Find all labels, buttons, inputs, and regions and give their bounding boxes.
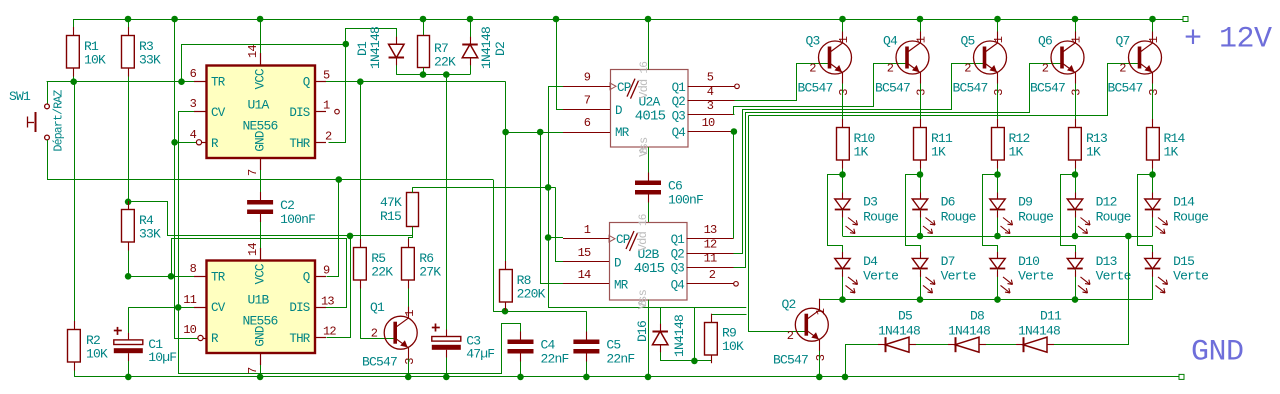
wire CV net to C4 top (179, 308, 521, 374)
svg-text:4015: 4015 (635, 109, 666, 125)
LED D10 green (990, 258, 1006, 269)
resistor R12 (992, 128, 1005, 161)
LED D7 green (912, 258, 928, 269)
svg-text:4: 4 (190, 128, 197, 142)
resistor R3 (122, 36, 135, 69)
LED D12 red (1067, 199, 1083, 210)
svg-text:D6: D6 (941, 195, 955, 210)
svg-text:1: 1 (915, 36, 929, 43)
svg-text:2: 2 (371, 327, 378, 341)
wire U2B Q1 pin13 to Q5 base (734, 64, 985, 254)
svg-text:Q3: Q3 (672, 109, 686, 123)
svg-text:13: 13 (321, 295, 334, 309)
svg-text:2: 2 (787, 329, 794, 343)
op-amp U1A NE556 timer body (207, 66, 316, 159)
svg-text:C2: C2 (280, 198, 294, 213)
svg-text:Verte: Verte (1018, 269, 1053, 284)
wire Q6 collector to +12V (1072, 16, 1079, 23)
svg-text:2: 2 (1042, 62, 1049, 76)
svg-text:D7: D7 (941, 254, 955, 269)
wire U2A D pin7 to +12V (553, 16, 560, 23)
svg-text:8: 8 (190, 262, 197, 276)
wire D16 anode to R9 bottom (660, 360, 711, 362)
svg-text:7: 7 (246, 169, 260, 176)
wire R5 column (360, 82, 362, 248)
resistor R1 (73, 19, 75, 36)
wire Q4 emitter to R11 (920, 73, 922, 128)
svg-text:Q1: Q1 (370, 300, 385, 315)
svg-text:2: 2 (325, 130, 332, 144)
wire verte jog column 4 (906, 175, 921, 259)
svg-text:DIS: DIS (289, 106, 309, 120)
resistor R9 (705, 323, 718, 356)
svg-text:1: 1 (1147, 36, 1161, 43)
wire U2B Q2 pin12 to Q6 base (734, 64, 1063, 268)
wire CP9 U2A clock (549, 87, 564, 308)
svg-text:4: 4 (707, 85, 714, 99)
svg-text:10K: 10K (86, 347, 108, 362)
svg-text:BC547: BC547 (362, 355, 397, 370)
wire +12V to R reset pins (171, 16, 178, 23)
wire U1A Q5 output net (326, 81, 506, 83)
svg-text:1: 1 (403, 310, 417, 317)
svg-text:Q7: Q7 (1116, 34, 1130, 49)
svg-text:Q5: Q5 (961, 34, 975, 49)
wire verte LED 2 to verte rail (920, 270, 922, 300)
diode D1 1N4148 (389, 44, 405, 58)
svg-text:MR: MR (614, 278, 629, 292)
svg-text:Rouge: Rouge (1173, 209, 1208, 224)
svg-text:7: 7 (584, 94, 591, 108)
diode D16 1N4148 (660, 307, 662, 331)
svg-text:1K: 1K (1086, 145, 1101, 160)
svg-text:2: 2 (1119, 62, 1126, 76)
svg-text:33K: 33K (139, 53, 161, 68)
wire D1 R7 D2 bottom rail (396, 74, 470, 76)
diode D8 1N4148 (955, 337, 957, 352)
wire U1B GND pin to rail (260, 365, 262, 377)
svg-text:22K: 22K (434, 55, 456, 70)
svg-text:1N4148: 1N4148 (878, 324, 920, 339)
svg-text:D8: D8 (970, 309, 984, 324)
svg-text:MR: MR (615, 126, 630, 140)
wire U2A Vss to C6 (648, 147, 650, 180)
resistor R1 (67, 36, 80, 69)
svg-text:R15: R15 (380, 209, 401, 224)
svg-text:3: 3 (837, 89, 851, 96)
svg-text:D2: D2 (493, 42, 508, 56)
wire THR2 U1A route (329, 45, 346, 143)
wire U2B Q3 pin11 to Q2 base (749, 116, 807, 332)
wire +12V top rail (73, 19, 1183, 21)
capacitor C5 (573, 340, 599, 345)
svg-text:Q2: Q2 (782, 297, 796, 312)
svg-text:2: 2 (887, 62, 894, 76)
svg-text:D10: D10 (1018, 254, 1039, 269)
svg-text:Q1: Q1 (671, 233, 685, 247)
svg-text:Verte: Verte (1173, 269, 1208, 284)
svg-text:Q: Q (303, 75, 310, 89)
wire U1A VCC to rail (257, 16, 264, 23)
svg-text:27K: 27K (419, 265, 441, 280)
wire U1A DIS pin1 unconnected (335, 109, 340, 114)
wire U2B Q4 pin2 unconnected (734, 282, 739, 287)
svg-text:D13: D13 (1096, 254, 1117, 269)
wire Q7 emitter to R14 (1152, 73, 1154, 128)
wire verte LED 1 to verte rail (842, 270, 844, 300)
svg-text:1K: 1K (931, 145, 946, 160)
svg-text:3: 3 (707, 99, 714, 113)
wire diode chain to GND (845, 345, 847, 377)
svg-text:1: 1 (323, 99, 330, 113)
svg-text:47K: 47K (380, 195, 402, 210)
diode D5 1N4148 (885, 337, 887, 352)
svg-text:14: 14 (246, 243, 260, 256)
svg-text:Vdd: Vdd (637, 79, 651, 99)
svg-text:47µF: 47µF (466, 347, 494, 362)
svg-text:4015: 4015 (634, 261, 665, 277)
resistor R2 (68, 330, 81, 363)
LED D13 green (1067, 258, 1083, 269)
svg-text:1N4148: 1N4148 (672, 315, 687, 357)
svg-text:Verte: Verte (941, 269, 976, 284)
svg-text:16: 16 (638, 214, 650, 226)
svg-text:1N4148: 1N4148 (479, 27, 494, 69)
svg-text:1: 1 (837, 36, 851, 43)
svg-text:BC547: BC547 (953, 81, 988, 96)
wire U2A Q4 pin10 cascade down to U2B pin13 (731, 128, 738, 135)
svg-text:TR: TR (211, 75, 226, 89)
svg-text:3: 3 (992, 89, 1006, 96)
wire Q2 collector to verte rail (820, 300, 821, 311)
wire D1 top route (346, 29, 397, 45)
svg-text:D: D (614, 256, 621, 270)
svg-text:Q3: Q3 (671, 262, 685, 276)
svg-text:Q4: Q4 (672, 126, 686, 140)
wire verte jog column 6 (1061, 175, 1076, 259)
svg-text:3: 3 (1147, 89, 1161, 96)
wire rouge LED 5 to rouge rail (1152, 211, 1154, 237)
svg-text:14: 14 (578, 268, 591, 282)
wire D11 to rouge rail (1048, 237, 1129, 345)
svg-text:GND: GND (254, 326, 268, 346)
svg-text:+ 12V: + 12V (1184, 23, 1272, 57)
LED D4 green (835, 258, 851, 269)
svg-text:BC547: BC547 (875, 81, 910, 96)
svg-text:Q2: Q2 (671, 248, 685, 262)
resistor R4 (122, 210, 135, 243)
op-amp U1B NE556 timer body (207, 261, 316, 354)
svg-text:Rouge: Rouge (1018, 209, 1053, 224)
svg-text:11: 11 (183, 293, 196, 307)
svg-text:Rouge: Rouge (863, 209, 898, 224)
svg-text:BC547: BC547 (1030, 81, 1065, 96)
svg-text:6: 6 (190, 67, 197, 81)
LED D3 red (835, 199, 851, 210)
svg-text:TR: TR (211, 270, 226, 284)
wire down to C3 top (446, 75, 448, 337)
svg-text:NE556: NE556 (242, 119, 277, 134)
wire Q5 collector to +12V (994, 16, 1001, 23)
svg-text:Q4: Q4 (671, 278, 685, 292)
svg-text:Q2: Q2 (672, 95, 686, 109)
wire U1B THR12 route (327, 236, 351, 338)
capacitor C3 (432, 337, 461, 342)
wire rouge LED 2 to rouge rail (920, 211, 922, 237)
node TR1 junction R1 (70, 78, 77, 85)
svg-text:3: 3 (814, 354, 828, 361)
svg-text:D3: D3 (863, 195, 877, 210)
svg-text:Rouge: Rouge (941, 209, 976, 224)
svg-text:D12: D12 (1096, 195, 1117, 210)
wire clock to R15/D15 (412, 187, 555, 189)
svg-text:CV: CV (211, 301, 226, 315)
svg-text:D15: D15 (1173, 254, 1194, 269)
wire Q3 emitter to R10 (842, 73, 844, 128)
wire MR net vertical (505, 82, 507, 270)
pin stubs U1B (194, 276, 206, 278)
resistor R14 (1147, 128, 1160, 161)
svg-text:Départ/RAZ: Départ/RAZ (53, 90, 66, 152)
svg-text:22nF: 22nF (541, 352, 569, 367)
shift register U2B 4015 body (610, 223, 688, 301)
svg-text:220K: 220K (517, 287, 546, 302)
wire rouge LED 3 to rouge rail (997, 211, 999, 237)
svg-text:8: 8 (639, 148, 651, 154)
svg-text:SW1: SW1 (9, 89, 31, 104)
wire rouge LED 4 to rouge rail (1075, 211, 1077, 237)
svg-text:1K: 1K (1009, 145, 1024, 160)
svg-text:C6: C6 (668, 179, 682, 194)
resistor R13 (1069, 128, 1082, 161)
svg-text:10: 10 (702, 116, 715, 130)
svg-text:D11: D11 (1040, 309, 1062, 324)
capacitor C2 (247, 200, 273, 205)
LED D6 red (912, 199, 928, 210)
wire rouge LED 1 to rouge rail (842, 211, 844, 237)
diode D2 1N4148 (467, 16, 474, 23)
wire Q3 collector to +12V (839, 16, 846, 23)
svg-text:15: 15 (578, 246, 591, 260)
svg-text:10: 10 (183, 323, 196, 337)
svg-text:3: 3 (403, 358, 417, 365)
wire clock to D16 (548, 307, 746, 309)
wire TR net horizontal (47, 81, 194, 83)
svg-text:GND: GND (1191, 336, 1244, 370)
wire U1A CV pin3 down to U1B CV net (179, 112, 195, 308)
svg-text:VCC: VCC (254, 69, 268, 89)
wire MR6 U2A (506, 132, 563, 134)
svg-text:D5: D5 (898, 309, 912, 324)
resistor R5 (354, 248, 367, 281)
wire Q4 collector to +12V (917, 16, 924, 23)
svg-text:U1B: U1B (247, 293, 269, 308)
wire verte LED 5 to verte rail (1152, 270, 1154, 300)
resistor R8 (500, 270, 513, 303)
svg-text:Q4: Q4 (883, 34, 898, 49)
capacitor C6 (635, 181, 661, 186)
svg-text:10K: 10K (84, 53, 106, 68)
svg-text:10µF: 10µF (148, 350, 176, 365)
wire R9 top to Q2 base node (712, 315, 747, 323)
svg-text:DIS: DIS (289, 301, 309, 315)
svg-text:7: 7 (246, 367, 260, 374)
wire Q6 emitter to R13 (1075, 73, 1077, 128)
svg-text:GND: GND (254, 131, 268, 151)
wire verte LED 3 to verte rail (997, 270, 999, 300)
resistor R4 (125, 199, 132, 206)
shift register U2A 4015 body (611, 70, 689, 148)
svg-text:C4: C4 (541, 338, 556, 353)
wire verte jog column 3 (828, 175, 843, 259)
svg-text:THR: THR (289, 137, 310, 151)
svg-text:1N4148: 1N4148 (948, 324, 990, 339)
svg-text:Rouge: Rouge (1096, 209, 1131, 224)
svg-text:5: 5 (323, 69, 330, 83)
resistor R10 (837, 128, 850, 161)
svg-text:16: 16 (639, 62, 651, 74)
svg-text:3: 3 (190, 97, 197, 111)
svg-text:5: 5 (707, 71, 714, 85)
svg-text:Verte: Verte (1096, 269, 1131, 284)
capacitor C4 (508, 340, 534, 345)
svg-text:Vdd: Vdd (636, 231, 650, 251)
wire U2B Q3 pin11 to Q7 base (749, 64, 1140, 116)
svg-text:3: 3 (1070, 89, 1084, 96)
svg-text:D16: D16 (635, 321, 650, 342)
svg-text:THR: THR (289, 332, 310, 346)
wire U2A Vdd to rail (645, 16, 652, 23)
svg-text:1: 1 (584, 223, 591, 237)
svg-text:1: 1 (814, 308, 828, 315)
resistor R11 (914, 128, 927, 161)
transistor Q1 BC547 (360, 338, 395, 340)
pin stubs U2B left (563, 238, 609, 240)
pin stubs U2A right (688, 86, 735, 88)
svg-text:12: 12 (323, 325, 336, 339)
svg-text:Q6: Q6 (1038, 34, 1052, 49)
svg-text:CV: CV (211, 106, 226, 120)
wire U1A R pin4 to +12V line (175, 142, 197, 144)
svg-text:6: 6 (584, 116, 591, 130)
node R8 bottom junction (502, 308, 509, 315)
resistor R2 (74, 82, 76, 330)
svg-text:D9: D9 (1018, 195, 1032, 210)
wire GND bottom rail (74, 376, 1179, 378)
svg-text:Q: Q (303, 270, 310, 284)
svg-text:1: 1 (992, 36, 1006, 43)
resistor R3 (125, 16, 132, 23)
LED D9 red (990, 199, 1006, 210)
svg-text:1K: 1K (854, 145, 869, 160)
wire verte jog column 5 (983, 175, 998, 259)
wire U2A Q1 pin5 unconnected (735, 84, 740, 89)
capacitor C1 (114, 340, 143, 345)
svg-text:BC547: BC547 (1108, 81, 1143, 96)
wire CV11 net with C1 (175, 304, 182, 311)
svg-text:C5: C5 (606, 338, 620, 353)
svg-text:1N4148: 1N4148 (368, 27, 383, 69)
svg-text:2: 2 (964, 62, 971, 76)
pin stubs U1A (194, 81, 206, 83)
wire U1B TR pin8 net (128, 276, 194, 278)
svg-text:D4: D4 (863, 254, 878, 269)
svg-text:U1A: U1A (247, 98, 269, 113)
pin stubs U2A left (563, 86, 610, 88)
wire verte jog column 7 (1138, 175, 1153, 259)
switch SW1 Depart/RAZ (47, 82, 49, 104)
wire Q7 collector to +12V (1149, 16, 1156, 23)
svg-text:13: 13 (704, 223, 717, 237)
wire Q5 emitter to R12 (997, 73, 999, 128)
svg-text:14: 14 (246, 45, 260, 58)
wire U1B Q9 output to clock node (327, 180, 339, 277)
svg-text:12: 12 (704, 238, 717, 252)
LED D15 green (1145, 258, 1161, 269)
pin stubs U2B right (687, 238, 734, 240)
wire U1A GND to C2 (260, 170, 262, 200)
svg-text:100nF: 100nF (668, 193, 703, 208)
resistor R6 (402, 248, 415, 281)
wire MR14 U2B (541, 133, 564, 284)
svg-text:100nF: 100nF (280, 212, 315, 227)
wire SW1 to clock caps node (47, 179, 493, 181)
wire U2B Vss to GND (648, 300, 650, 377)
node R4 top route to THR net (129, 202, 351, 236)
wire D1 branch from TR net (178, 78, 185, 85)
diode D11 1N4148 (1023, 337, 1025, 352)
svg-text:VCC: VCC (254, 264, 268, 284)
wire TR8 to DIS13 route (172, 239, 347, 308)
wire rouge rail (843, 236, 1153, 238)
svg-text:22nF: 22nF (606, 352, 634, 367)
svg-text:1K: 1K (1164, 145, 1179, 160)
LED D14 red (1145, 199, 1161, 210)
svg-text:Verte: Verte (863, 269, 898, 284)
wire THR net to R6 top (351, 236, 413, 248)
svg-text:2: 2 (809, 62, 816, 76)
wire to C5 top (586, 311, 588, 339)
svg-text:22K: 22K (371, 265, 393, 280)
svg-text:1: 1 (1070, 36, 1084, 43)
svg-text:Q3: Q3 (806, 34, 820, 49)
svg-text:9: 9 (584, 71, 591, 85)
svg-text:D: D (615, 104, 622, 118)
svg-text:BC547: BC547 (773, 353, 808, 368)
wire Q2 emitter to GND (819, 340, 821, 377)
wire verte rail (820, 299, 1152, 301)
wire U2A Q3 pin3 to Q4 base (734, 64, 908, 115)
svg-text:33K: 33K (139, 227, 161, 242)
svg-text:Q1: Q1 (672, 81, 686, 95)
svg-text:9: 9 (323, 264, 330, 278)
wire verte LED 4 to verte rail (1075, 270, 1077, 300)
svg-text:D14: D14 (1173, 195, 1195, 210)
svg-text:2: 2 (709, 268, 716, 282)
svg-text:3: 3 (915, 89, 929, 96)
svg-text:10K: 10K (722, 339, 744, 354)
svg-text:11: 11 (704, 252, 717, 266)
svg-text:NE556: NE556 (242, 314, 277, 329)
resistor R7 (420, 16, 427, 23)
wire U2A Q2 pin4 to Q3 base (735, 64, 830, 101)
svg-text:1N4148: 1N4148 (1018, 324, 1060, 339)
wire CP1 U2B (548, 237, 563, 239)
svg-text:BC547: BC547 (798, 81, 833, 96)
resistor R15 (407, 193, 419, 227)
